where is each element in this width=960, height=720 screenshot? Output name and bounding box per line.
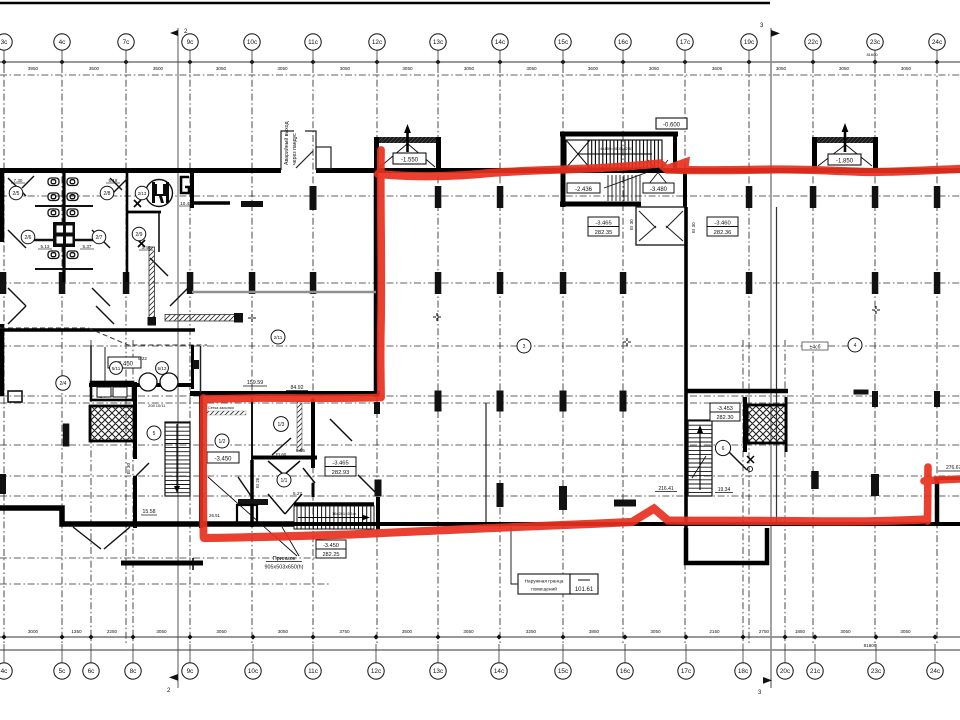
grid annotation band bbox=[206, 411, 246, 415]
room circle 2/6 bbox=[21, 230, 35, 244]
svg-text:1350: 1350 bbox=[71, 629, 82, 634]
svg-text:9c: 9c bbox=[187, 39, 195, 46]
bottom wall of hall bbox=[294, 522, 960, 526]
svg-text:2/13: 2/13 bbox=[138, 191, 147, 196]
label near 4 bbox=[802, 342, 828, 350]
svg-text:3050: 3050 bbox=[402, 66, 413, 71]
dashed boundary line room 159.59 bbox=[0, 328, 207, 345]
svg-text:4c: 4c bbox=[59, 39, 67, 46]
svg-text:5/11: 5/11 bbox=[112, 366, 121, 371]
room circle 5 bbox=[147, 426, 161, 440]
svg-text:-0.600: -0.600 bbox=[663, 123, 681, 129]
svg-text:1850: 1850 bbox=[795, 629, 806, 634]
svg-text:23c: 23c bbox=[871, 668, 882, 675]
svg-text:3050: 3050 bbox=[526, 66, 537, 71]
room circle 1/3 bbox=[274, 417, 289, 432]
svg-text:3500: 3500 bbox=[402, 629, 413, 634]
svg-text:6c: 6c bbox=[88, 668, 96, 675]
emergency exit vestibule bbox=[281, 131, 331, 170]
svg-text:11c: 11c bbox=[308, 668, 319, 675]
svg-text:13c: 13c bbox=[433, 668, 444, 675]
elevator lobby bbox=[636, 207, 686, 245]
svg-text:EI 30: EI 30 bbox=[629, 219, 634, 230]
svg-text:282.35: 282.35 bbox=[595, 230, 613, 236]
entrance door swings bottom-left bbox=[73, 527, 101, 549]
svg-text:EI 30: EI 30 bbox=[126, 462, 132, 474]
stair room5 bbox=[165, 422, 190, 496]
pit below room6 bbox=[686, 528, 767, 563]
svg-text:2/11: 2/11 bbox=[274, 335, 283, 340]
room circle 2/9 bbox=[132, 227, 146, 241]
svg-text:EI 26: EI 26 bbox=[255, 477, 260, 488]
toilet block spine wall bbox=[62, 172, 65, 282]
door swings rooms 1/x bbox=[238, 419, 376, 514]
toilet block bottom wall bbox=[0, 328, 195, 332]
red marker: mid vertical bbox=[199, 398, 207, 537]
svg-text:1/1: 1/1 bbox=[281, 478, 288, 484]
svg-text:2/4: 2/4 bbox=[60, 381, 67, 387]
svg-text:13c: 13c bbox=[433, 39, 444, 46]
thin wall x=776 bbox=[776, 207, 778, 524]
svg-text:3c: 3c bbox=[1, 39, 9, 46]
stair landing cross bbox=[566, 140, 590, 168]
svg-text:15.58: 15.58 bbox=[143, 509, 156, 515]
level box -3.465/282.35 bbox=[588, 217, 619, 227]
hatched shaft bbox=[90, 406, 134, 441]
door swing room6 bbox=[729, 452, 747, 470]
room 2/9 walls bbox=[127, 211, 161, 214]
svg-text:6: 6 bbox=[722, 446, 725, 452]
legend box bbox=[518, 574, 570, 594]
room 6 top wall bbox=[686, 389, 788, 394]
svg-text:16x281=5.1m: 16x281=5.1m bbox=[332, 511, 357, 516]
level box -3.450/282.25 bbox=[316, 540, 346, 549]
svg-text:8c: 8c bbox=[130, 668, 138, 675]
svg-text:14c: 14c bbox=[495, 39, 506, 46]
grid bubbles top bbox=[0, 34, 945, 66]
svg-text:7c: 7c bbox=[123, 39, 131, 46]
svg-text:15c: 15c bbox=[558, 39, 569, 46]
cross marks bbox=[248, 306, 880, 346]
stair right wall x=378 bbox=[376, 497, 380, 530]
svg-text:20c: 20c bbox=[780, 668, 791, 675]
svg-text:282.36: 282.36 bbox=[714, 230, 732, 236]
damper room6 bbox=[747, 456, 754, 463]
svg-text:282.93: 282.93 bbox=[332, 470, 350, 476]
level box -3.450 room 1/2 bbox=[207, 452, 239, 463]
room circle 6 bbox=[715, 440, 730, 455]
red marker: left vertical bbox=[377, 150, 386, 396]
room circle 2/5 bbox=[9, 186, 23, 200]
svg-text:23c: 23c bbox=[870, 39, 881, 46]
svg-text:3050: 3050 bbox=[340, 66, 351, 71]
room circle 5/11 bbox=[110, 362, 123, 375]
lower-left L wall bbox=[0, 508, 294, 524]
horizontal grid axes (dash-dot) bbox=[0, 75, 960, 584]
red marker: right vertical bbox=[924, 467, 932, 521]
thin wall x=486 bbox=[485, 403, 487, 522]
elevator shaft 2 bbox=[812, 123, 878, 170]
svg-text:3050: 3050 bbox=[216, 66, 227, 71]
level box -0.600 bbox=[656, 118, 687, 129]
toilet partitions bbox=[25, 206, 105, 269]
svg-text:3050: 3050 bbox=[278, 629, 289, 634]
svg-text:3050: 3050 bbox=[650, 629, 661, 634]
left outer wall bbox=[0, 168, 4, 242]
svg-text:4c: 4c bbox=[1, 668, 9, 675]
svg-text:4: 4 bbox=[854, 343, 857, 349]
svg-text:3050: 3050 bbox=[839, 66, 850, 71]
svg-text:14х159=81.05х2.63: 14х159=81.05х2.63 bbox=[598, 146, 634, 151]
section line 2 (x=178) bbox=[177, 28, 179, 688]
svg-text:84.92: 84.92 bbox=[291, 385, 304, 391]
svg-text:3.40: 3.40 bbox=[142, 245, 151, 250]
room circle 1/1 bbox=[277, 473, 291, 487]
pit (priyamok) bbox=[238, 499, 268, 505]
level box -2.436 bbox=[567, 183, 600, 193]
svg-text:208 10/11: 208 10/11 bbox=[148, 403, 166, 408]
svg-text:Аварийный выход: Аварийный выход bbox=[283, 122, 290, 165]
wall x=135 bbox=[133, 382, 137, 459]
wall x=377 (under red) bbox=[374, 172, 379, 397]
svg-text:3500: 3500 bbox=[153, 66, 164, 71]
room circle 2/8 bbox=[100, 186, 114, 200]
tanks bbox=[139, 373, 157, 391]
top dimension line bbox=[0, 61, 960, 63]
wc corridor wall bbox=[126, 172, 129, 282]
svg-text:5.27: 5.27 bbox=[293, 491, 302, 496]
elevator small bbox=[91, 382, 133, 400]
urinal fixtures bbox=[48, 178, 78, 259]
svg-text:2/5: 2/5 bbox=[13, 191, 20, 197]
svg-text:-1.550: -1.550 bbox=[401, 158, 419, 164]
svg-text:-2.436: -2.436 bbox=[575, 187, 593, 193]
top border line bbox=[0, 2, 770, 4]
svg-text:3750: 3750 bbox=[339, 629, 350, 634]
svg-text:5.22: 5.22 bbox=[138, 356, 147, 361]
svg-text:24c: 24c bbox=[930, 668, 941, 675]
svg-text:3950: 3950 bbox=[28, 66, 39, 71]
svg-text:11c: 11c bbox=[308, 39, 319, 46]
svg-text:9.85: 9.85 bbox=[296, 448, 305, 453]
svg-text:±4сб: ±4сб bbox=[810, 345, 821, 351]
svg-text:3000: 3000 bbox=[28, 629, 39, 634]
vertical grid axes (dash-dot) bbox=[4, 66, 937, 644]
fire cabinet symbol bbox=[181, 177, 189, 193]
dimension tick marks top bbox=[1, 59, 939, 64]
svg-text:-3.465: -3.465 bbox=[332, 461, 348, 467]
red marker: shelf horizontal bbox=[206, 398, 381, 400]
main stair block bbox=[560, 134, 685, 207]
red marker: right exit bbox=[924, 479, 960, 481]
level box -3.450 left bbox=[108, 357, 141, 368]
svg-text:905х503х650(h): 905х503х650(h) bbox=[265, 565, 304, 571]
stair upper flight treads bbox=[566, 140, 662, 168]
bottom stair (1st floor run) bbox=[294, 502, 374, 505]
red marker: top horizontal bbox=[378, 164, 960, 177]
gray mezzanine edge bbox=[192, 291, 376, 293]
svg-text:-3.453: -3.453 bbox=[717, 406, 733, 412]
bottom dimension line bbox=[0, 636, 960, 638]
svg-text:3050: 3050 bbox=[463, 629, 474, 634]
svg-text:-1.850: -1.850 bbox=[836, 159, 854, 165]
stair room6 bbox=[688, 420, 712, 496]
svg-text:5/12: 5/12 bbox=[158, 366, 167, 371]
sink counter unit bbox=[53, 222, 75, 247]
room circle 1/2 bbox=[215, 434, 229, 448]
svg-text:15c: 15c bbox=[558, 668, 569, 675]
svg-text:3500: 3500 bbox=[89, 66, 100, 71]
svg-text:3600: 3600 bbox=[588, 66, 599, 71]
svg-text:3050: 3050 bbox=[649, 66, 660, 71]
red marker: arrow kink bbox=[663, 157, 690, 173]
svg-text:16c: 16c bbox=[618, 39, 629, 46]
svg-text:81600: 81600 bbox=[866, 52, 878, 57]
svg-text:10c: 10c bbox=[248, 668, 259, 675]
service rooms top wall bbox=[89, 383, 191, 387]
stair lower flight treads bbox=[608, 175, 640, 201]
accessible wc symbol bbox=[146, 180, 173, 207]
svg-text:EI 30: EI 30 bbox=[691, 222, 696, 233]
svg-text:19.34: 19.34 bbox=[718, 487, 731, 493]
retaining wall bar y=563 bbox=[121, 561, 203, 566]
svg-text:Наружная гранца: Наружная гранца bbox=[525, 579, 564, 585]
svg-text:2/6: 2/6 bbox=[25, 235, 32, 241]
main top wall bbox=[0, 168, 281, 173]
dimension tick marks bottom bbox=[1, 634, 937, 639]
svg-text:-3.450: -3.450 bbox=[323, 543, 339, 549]
svg-text:3050: 3050 bbox=[900, 629, 911, 634]
svg-text:3850: 3850 bbox=[589, 629, 600, 634]
red marker: bottom horizontal bbox=[204, 509, 926, 539]
wall right of accessible wc bbox=[190, 172, 194, 208]
level box -3.460/282.36 bbox=[707, 217, 738, 227]
elevator shaft 1 bbox=[374, 124, 441, 172]
svg-text:282.30: 282.30 bbox=[716, 415, 733, 421]
svg-text:2750: 2750 bbox=[759, 629, 770, 634]
svg-text:282.25: 282.25 bbox=[322, 552, 339, 558]
room 6 / shaft walls bbox=[743, 397, 747, 452]
svg-text:Приямок: Приямок bbox=[273, 556, 296, 562]
room circle 2/4 bbox=[56, 376, 70, 390]
svg-text:2/8: 2/8 bbox=[104, 191, 111, 197]
svg-text:2/7: 2/7 bbox=[96, 235, 103, 241]
top dimension numbers bbox=[28, 52, 912, 71]
svg-text:16c: 16c bbox=[620, 668, 631, 675]
svg-text:19c: 19c bbox=[744, 39, 755, 46]
room circle 2/11 bbox=[271, 330, 285, 344]
svg-text:3050: 3050 bbox=[776, 66, 787, 71]
svg-text:7.30: 7.30 bbox=[14, 178, 23, 183]
left wall of rooms 1/x (under red) bbox=[199, 393, 203, 528]
svg-text:17c: 17c bbox=[680, 39, 691, 46]
svg-text:5.18: 5.18 bbox=[109, 178, 118, 183]
vent duct hatched vertical bbox=[149, 247, 155, 319]
svg-text:26.51: 26.51 bbox=[209, 513, 221, 518]
svg-text:-3.450: -3.450 bbox=[214, 457, 232, 463]
level box -3.453/282.30 bbox=[710, 403, 740, 412]
svg-text:81600: 81600 bbox=[864, 643, 877, 648]
svg-text:2150: 2150 bbox=[709, 629, 720, 634]
room circle 2/13 bbox=[135, 186, 149, 200]
svg-text:-3.480: -3.480 bbox=[650, 187, 668, 193]
svg-text:5: 5 bbox=[153, 431, 156, 437]
svg-text:-3.460: -3.460 bbox=[714, 221, 730, 227]
stair flight arrow bbox=[578, 153, 652, 155]
svg-text:216.41: 216.41 bbox=[658, 486, 674, 492]
damper x room 2/9 bbox=[134, 200, 145, 247]
svg-text:10c: 10c bbox=[247, 39, 258, 46]
wall above rooms 1/x bbox=[190, 391, 380, 396]
svg-text:24c: 24c bbox=[932, 39, 943, 46]
svg-text:2/9: 2/9 bbox=[136, 232, 143, 238]
svg-text:5.37: 5.37 bbox=[83, 244, 92, 249]
structural columns bbox=[0, 186, 940, 510]
svg-text:9c: 9c bbox=[187, 668, 195, 675]
svg-text:10.45: 10.45 bbox=[180, 201, 192, 206]
svg-text:3050: 3050 bbox=[156, 629, 167, 634]
svg-text:12c: 12c bbox=[372, 39, 383, 46]
svg-text:3250: 3250 bbox=[526, 629, 537, 634]
stall door swings bbox=[8, 176, 188, 324]
svg-text:2250: 2250 bbox=[107, 629, 118, 634]
svg-text:276.67: 276.67 bbox=[946, 465, 960, 471]
svg-text:21c: 21c bbox=[810, 668, 821, 675]
legend leader bbox=[511, 527, 518, 584]
svg-text:3050: 3050 bbox=[464, 66, 475, 71]
leader lines to pit label bbox=[208, 477, 297, 556]
svg-text:18c: 18c bbox=[738, 668, 749, 675]
svg-text:12c: 12c bbox=[371, 668, 382, 675]
level box -3.480 bbox=[643, 183, 674, 193]
svg-text:101.61: 101.61 bbox=[575, 587, 594, 593]
svg-text:5.13: 5.13 bbox=[41, 244, 50, 249]
bottom dimension numbers bbox=[28, 629, 911, 648]
svg-text:5c: 5c bbox=[59, 668, 67, 675]
level box -3.465/282.93 bbox=[325, 457, 356, 467]
svg-text:22c: 22c bbox=[808, 39, 819, 46]
svg-text:1/3: 1/3 bbox=[278, 422, 285, 428]
vent duct hatched horizontal bbox=[165, 315, 235, 322]
svg-text:через пандус: через пандус bbox=[292, 133, 298, 165]
svg-text:159.59: 159.59 bbox=[247, 380, 264, 386]
area labels toilets bbox=[11, 178, 193, 250]
wall stub y=203 bbox=[190, 201, 230, 204]
svg-text:3050: 3050 bbox=[277, 66, 288, 71]
svg-text:14c: 14c bbox=[494, 668, 505, 675]
svg-text:3605: 3605 bbox=[712, 66, 723, 71]
svg-text:1/2: 1/2 bbox=[219, 439, 226, 445]
svg-text:помещений: помещений bbox=[531, 586, 557, 593]
svg-text:17c: 17c bbox=[681, 668, 692, 675]
svg-text:-3.465: -3.465 bbox=[595, 221, 611, 227]
svg-text:EI 60: EI 60 bbox=[276, 452, 287, 457]
svg-text:3050: 3050 bbox=[901, 66, 912, 71]
section line 3 (x=771) bbox=[770, 28, 772, 688]
room circle 5/12 bbox=[156, 362, 169, 375]
svg-text:Сетка засыпки: Сетка засыпки bbox=[208, 406, 234, 410]
rooms 1/x internal walls bbox=[251, 399, 253, 460]
grid bubbles bottom bbox=[0, 644, 943, 679]
svg-text:3: 3 bbox=[523, 344, 526, 350]
room circle 3 bbox=[517, 339, 531, 353]
svg-text:3050: 3050 bbox=[840, 629, 851, 634]
room circle 4 bbox=[848, 338, 862, 352]
hall right wall bbox=[684, 207, 688, 528]
right-bottom wall return bbox=[935, 479, 940, 524]
svg-text:3050: 3050 bbox=[216, 629, 227, 634]
bottom frame line bbox=[0, 649, 960, 651]
room circle 2/7 bbox=[92, 230, 106, 244]
